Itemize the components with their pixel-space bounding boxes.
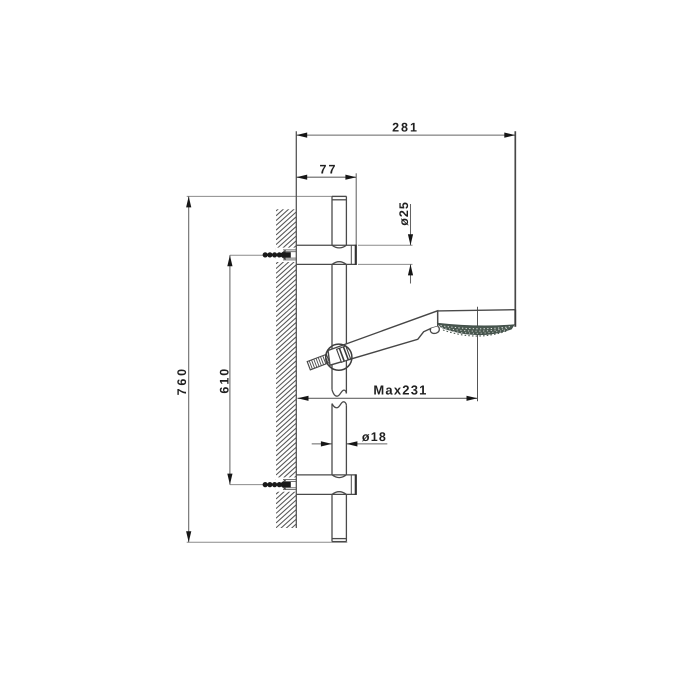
svg-text:610: 610: [218, 367, 232, 394]
svg-text:ø25: ø25: [397, 201, 411, 226]
svg-text:281: 281: [392, 120, 419, 134]
svg-text:77: 77: [320, 163, 338, 177]
svg-text:ø18: ø18: [362, 430, 387, 444]
svg-text:Max231: Max231: [373, 382, 427, 397]
svg-text:760: 760: [175, 366, 189, 395]
